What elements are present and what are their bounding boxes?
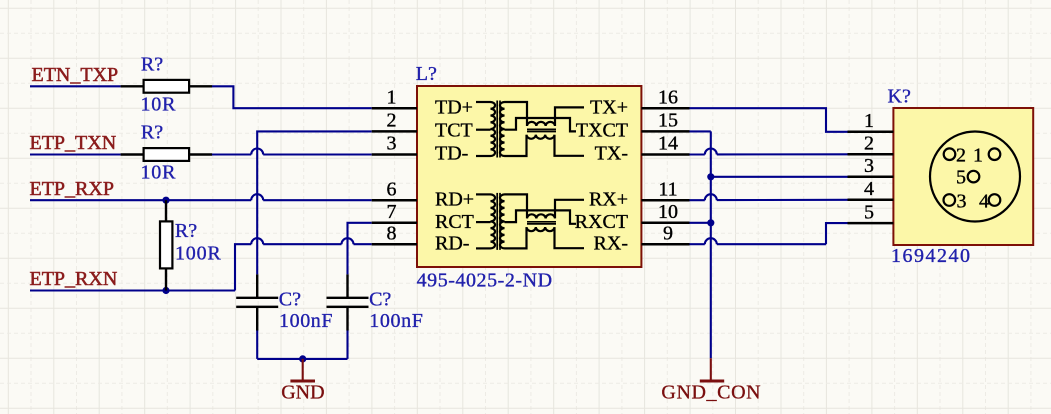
svg-text:RD-: RD-	[435, 232, 469, 254]
svg-text:TCT: TCT	[435, 120, 473, 142]
svg-text:ETP_RXN: ETP_RXN	[30, 268, 118, 290]
svg-text:8: 8	[387, 222, 397, 244]
svg-text:10R: 10R	[141, 162, 177, 184]
svg-text:495-4025-2-ND: 495-4025-2-ND	[417, 269, 553, 291]
svg-text:ETP_RXP: ETP_RXP	[30, 178, 114, 200]
svg-text:R?: R?	[141, 122, 163, 144]
svg-text:GND_CON: GND_CON	[661, 381, 761, 403]
svg-text:6: 6	[387, 178, 397, 200]
svg-text:2: 2	[956, 145, 966, 167]
svg-text:R?: R?	[141, 53, 163, 75]
svg-text:100nF: 100nF	[279, 310, 333, 332]
svg-text:1694240: 1694240	[891, 245, 972, 267]
svg-text:GND: GND	[281, 382, 324, 404]
svg-text:4: 4	[979, 191, 989, 213]
svg-text:TX+: TX+	[590, 96, 628, 118]
svg-text:RX+: RX+	[589, 188, 628, 210]
svg-text:10R: 10R	[141, 93, 177, 115]
svg-text:100R: 100R	[175, 243, 222, 265]
svg-text:TX-: TX-	[595, 143, 628, 165]
svg-text:ETN_TXP: ETN_TXP	[32, 64, 119, 86]
svg-text:11: 11	[658, 178, 677, 200]
svg-text:1: 1	[973, 145, 983, 167]
svg-text:RCT: RCT	[435, 211, 474, 233]
svg-text:RD+: RD+	[435, 188, 474, 210]
svg-text:K?: K?	[888, 86, 911, 108]
svg-text:7: 7	[387, 201, 397, 223]
svg-text:R?: R?	[175, 220, 197, 242]
svg-text:TD+: TD+	[435, 96, 473, 118]
svg-text:5: 5	[864, 201, 874, 223]
svg-text:C?: C?	[279, 289, 301, 311]
svg-text:4: 4	[864, 178, 874, 200]
svg-text:ETP_TXN: ETP_TXN	[30, 132, 117, 154]
svg-text:C?: C?	[369, 289, 391, 311]
svg-text:14: 14	[658, 133, 678, 155]
svg-text:2: 2	[864, 133, 874, 155]
svg-text:TXCT: TXCT	[576, 120, 628, 142]
svg-text:100nF: 100nF	[369, 310, 423, 332]
svg-text:RX-: RX-	[594, 232, 628, 254]
svg-text:3: 3	[864, 155, 874, 177]
svg-text:TD-: TD-	[435, 143, 468, 165]
svg-text:9: 9	[663, 222, 673, 244]
svg-text:RXCT: RXCT	[575, 211, 628, 233]
svg-text:15: 15	[658, 110, 678, 132]
svg-text:10: 10	[658, 201, 678, 223]
svg-text:5: 5	[956, 167, 966, 189]
svg-text:3: 3	[957, 191, 967, 213]
svg-text:16: 16	[658, 86, 678, 108]
svg-text:1: 1	[387, 86, 397, 108]
svg-text:1: 1	[864, 110, 874, 132]
svg-text:3: 3	[387, 133, 397, 155]
svg-text:2: 2	[387, 110, 397, 132]
svg-text:L?: L?	[416, 63, 437, 85]
